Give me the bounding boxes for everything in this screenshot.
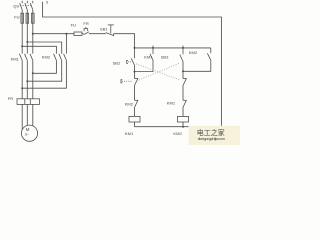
svg-text:FR: FR bbox=[83, 21, 88, 26]
wire branch B mid bbox=[182, 86, 184, 101]
wire control line to fuse bbox=[66, 33, 74, 35]
wire control rail bbox=[135, 47, 211, 49]
wire SB1 to branch corner bbox=[114, 34, 135, 48]
wire control feed from L3 bbox=[33, 33, 67, 35]
svg-text:KM1: KM1 bbox=[11, 56, 20, 61]
svg-text:KM1: KM1 bbox=[144, 54, 153, 59]
node branchA-aux join bbox=[134, 71, 136, 73]
svg-text:SB3: SB3 bbox=[161, 55, 169, 60]
contactor KM2 main contacts bbox=[54, 54, 67, 61]
linkage dashed SB3 bbox=[139, 63, 180, 80]
node merge L2 bbox=[26, 80, 28, 82]
wire KM2 left pole output crossover bbox=[33, 60, 57, 73]
wire branch B bbox=[182, 62, 184, 79]
svg-text:S: S bbox=[46, 1, 49, 5]
node tap L2 bbox=[26, 41, 28, 43]
interlock contact KM2 NC (branch A) bbox=[135, 100, 139, 107]
watermark background bbox=[189, 126, 241, 145]
svg-text:KM2: KM2 bbox=[42, 54, 51, 59]
wire phase line L1 bbox=[21, 1, 23, 130]
wire bbox=[89, 33, 106, 35]
motor M bbox=[21, 125, 37, 141]
wire branch A bbox=[134, 65, 136, 78]
wire coil KM2 to bottom rail bbox=[182, 122, 184, 127]
wire coil KM1 to bottom rail bbox=[134, 122, 136, 127]
wire KM2 right pole feed bbox=[65, 34, 67, 54]
fuse FU (control) bbox=[74, 32, 82, 35]
svg-text:diangongzhijia.com: diangongzhijia.com bbox=[198, 137, 225, 141]
wire phase line L3 bbox=[32, 1, 34, 126]
svg-text:SB2: SB2 bbox=[113, 60, 121, 65]
node S label bbox=[46, 1, 49, 5]
wire KM2 left pole feed bbox=[22, 46, 56, 53]
coil KM1 bbox=[129, 116, 140, 122]
svg-text:KM2: KM2 bbox=[189, 50, 198, 55]
linkage dashed SB2 bbox=[136, 64, 181, 81]
svg-text:3~: 3~ bbox=[25, 132, 30, 137]
svg-text:SB1: SB1 bbox=[100, 27, 108, 32]
disconnect switch QS bbox=[20, 3, 33, 10]
wire phase line L2 bbox=[26, 1, 28, 126]
svg-text:KM2: KM2 bbox=[173, 131, 182, 136]
aux contact KM1 bbox=[135, 48, 154, 72]
start button SB3 (branch B) bbox=[180, 48, 183, 62]
wire KM2 right pole output crossover bbox=[22, 60, 66, 88]
node coil KM2 bottom bbox=[182, 126, 184, 128]
control source line S bbox=[43, 2, 222, 127]
svg-text:FR: FR bbox=[8, 96, 13, 101]
node rail-branchB bbox=[182, 46, 184, 49]
start button SB2 bbox=[127, 48, 135, 65]
contactor KM1 main contacts bbox=[19, 54, 32, 61]
aux contact KM2 bbox=[183, 48, 211, 71]
svg-text:FU: FU bbox=[14, 14, 19, 19]
svg-text:KM1: KM1 bbox=[167, 101, 176, 106]
svg-text:QS: QS bbox=[13, 4, 19, 9]
stop button SB1 bbox=[106, 25, 114, 36]
node merge L3 bbox=[32, 72, 34, 74]
node branchB-aux join bbox=[182, 70, 184, 72]
node tap L3 to control line bbox=[32, 33, 34, 35]
node tap at KM2 right feed bbox=[65, 33, 67, 35]
watermark 电工之家 bbox=[197, 128, 225, 141]
svg-text:FU: FU bbox=[71, 23, 76, 28]
svg-text:KM1: KM1 bbox=[125, 131, 134, 136]
node tap L1 bbox=[21, 45, 23, 47]
interlock contact SB2 NC (branch B) bbox=[183, 78, 187, 85]
svg-text:KM2: KM2 bbox=[125, 101, 134, 106]
wire to coil KM1 bbox=[134, 107, 136, 116]
fuse group FU (main) bbox=[21, 13, 34, 23]
node merge L1 bbox=[21, 87, 23, 89]
FR NC contact (control) bbox=[84, 27, 89, 35]
node rail-branchA bbox=[134, 47, 136, 49]
wire KM2 middle pole output bbox=[27, 60, 61, 81]
wire branch A mid bbox=[134, 86, 136, 101]
node rail-KM1aux bbox=[152, 46, 154, 49]
thermal overload FR heaters bbox=[17, 99, 40, 105]
wire to coil KM2 bbox=[182, 107, 184, 116]
coil KM2 bbox=[178, 116, 189, 122]
wire KM2 middle pole feed bbox=[27, 42, 61, 54]
wire bottom rail bbox=[135, 126, 222, 128]
svg-text:电工之家: 电工之家 bbox=[197, 128, 225, 137]
interlock contact KM1 NC (branch B) bbox=[183, 100, 187, 107]
wire bbox=[82, 33, 84, 35]
interlock contact SB3 NC (branch A) bbox=[121, 78, 138, 85]
